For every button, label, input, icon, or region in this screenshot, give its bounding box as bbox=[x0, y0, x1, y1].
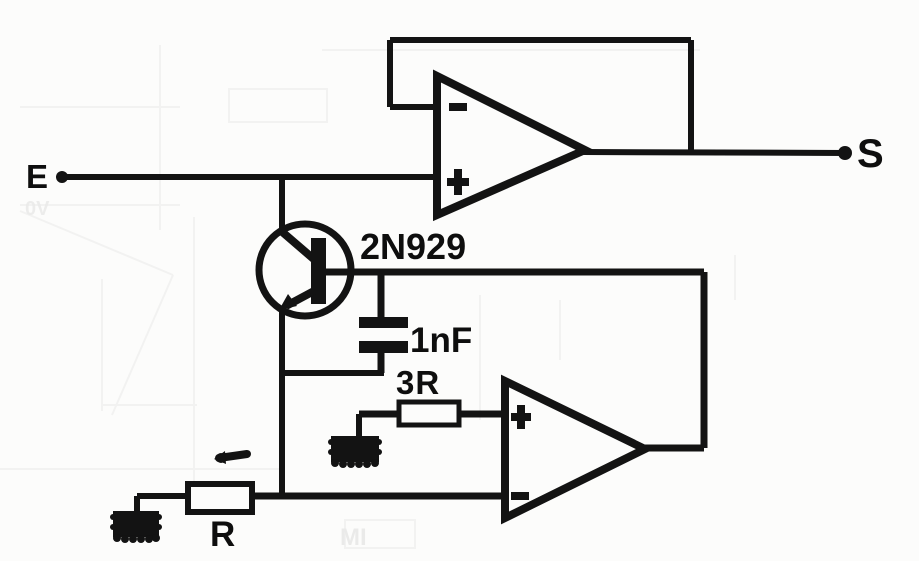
wire bottom feedback bottom horizontal bbox=[645, 445, 704, 452]
wire U1 output to S bbox=[583, 152, 846, 153]
terminal E dot bbox=[56, 171, 68, 183]
svg-text:R: R bbox=[210, 515, 235, 554]
svg-text:MI: MI bbox=[340, 524, 367, 551]
U1 plus sign bbox=[447, 169, 469, 195]
wire bottom feedback right vertical bbox=[701, 272, 708, 448]
svg-text:2N929: 2N929 bbox=[360, 226, 466, 267]
capacitor C1 top lead bbox=[378, 272, 385, 320]
U1 minus sign bbox=[449, 103, 467, 111]
svg-text:S: S bbox=[857, 132, 884, 176]
U2 minus sign bbox=[511, 492, 529, 500]
wire 3R left lead bbox=[359, 411, 399, 418]
U2 plus sign bbox=[511, 405, 531, 429]
op-amp U1 bbox=[437, 76, 585, 215]
op-amp U2 bbox=[505, 381, 645, 518]
wire capacitor to emitter bbox=[282, 370, 384, 376]
wire collector vertical bbox=[279, 177, 285, 236]
ground G2 bbox=[328, 436, 382, 468]
wire R ground lead bbox=[134, 496, 140, 513]
wire base horizontal bbox=[326, 269, 704, 276]
wire U1 inverting input lead bbox=[390, 104, 437, 110]
svg-text:3R: 3R bbox=[396, 364, 440, 401]
terminal S dot bbox=[838, 146, 852, 160]
wire emitter vertical bbox=[279, 308, 285, 496]
resistor 3R bbox=[399, 402, 459, 425]
svg-text:0V: 0V bbox=[25, 198, 50, 220]
wire feedback top horizontal bbox=[390, 37, 691, 43]
wire feedback left vertical bbox=[387, 40, 393, 107]
transistor Q1 2N929 bbox=[259, 224, 351, 316]
wire feedback right vertical bbox=[688, 40, 694, 153]
ground G1 bbox=[110, 511, 162, 543]
wire R left lead bbox=[137, 493, 188, 499]
capacitor C1 plates bbox=[359, 317, 408, 353]
svg-text:1nF: 1nF bbox=[410, 321, 472, 360]
resistor R bbox=[188, 484, 252, 512]
wire 3R ground lead bbox=[356, 414, 362, 438]
svg-text:E: E bbox=[26, 158, 48, 195]
capacitor C1 bottom lead bbox=[378, 353, 385, 373]
wire U2 minus input bbox=[250, 493, 505, 500]
wire E input to U1 plus bbox=[60, 174, 437, 180]
wire U2 plus input lead bbox=[459, 411, 505, 418]
current direction arrow bbox=[214, 451, 247, 464]
